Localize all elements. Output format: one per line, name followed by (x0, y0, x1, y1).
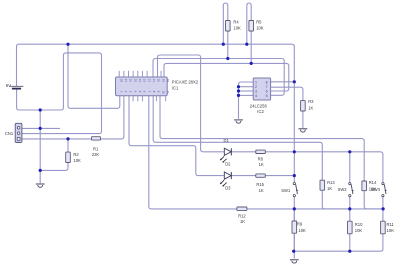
svg-text:1K: 1K (259, 188, 264, 193)
svg-text:R12: R12 (238, 213, 246, 218)
svg-text:R5: R5 (256, 20, 262, 25)
svg-text:R8: R8 (258, 156, 264, 161)
svg-text:20: 20 (157, 79, 161, 83)
svg-text:R2: R2 (73, 152, 79, 157)
svg-text:23: 23 (143, 79, 147, 83)
svg-text:SW3: SW3 (371, 187, 381, 192)
svg-text:21: 21 (152, 79, 156, 83)
svg-text:10K: 10K (298, 228, 306, 233)
svg-text:28: 28 (119, 79, 123, 83)
svg-text:R4: R4 (233, 20, 239, 25)
svg-text:R14: R14 (369, 180, 377, 185)
svg-text:R10: R10 (355, 222, 363, 227)
svg-text:10K: 10K (256, 26, 264, 31)
svg-text:24LC256: 24LC256 (250, 103, 268, 108)
svg-text:1: 1 (255, 80, 257, 84)
svg-text:R11: R11 (387, 222, 395, 227)
svg-text:6: 6 (266, 89, 268, 93)
svg-text:R3: R3 (308, 99, 314, 104)
svg-text:26: 26 (129, 79, 133, 83)
svg-text:10K: 10K (233, 26, 241, 31)
svg-text:1K: 1K (240, 219, 245, 224)
svg-text:1K: 1K (259, 162, 264, 167)
svg-text:2: 2 (255, 85, 257, 89)
svg-text:19: 19 (161, 79, 165, 83)
svg-text:25: 25 (133, 79, 137, 83)
svg-text:CN1: CN1 (5, 131, 14, 136)
svg-text:R1: R1 (93, 146, 99, 151)
svg-text:IC1: IC1 (172, 85, 179, 90)
svg-text:PICAXE 28X2: PICAXE 28X2 (172, 80, 199, 85)
svg-text:10K: 10K (355, 228, 363, 233)
svg-text:11: 11 (166, 91, 170, 94)
svg-text:SW1: SW1 (281, 188, 291, 193)
svg-text:1K: 1K (327, 186, 332, 191)
svg-text:10K: 10K (73, 158, 81, 163)
svg-text:10K: 10K (387, 228, 395, 233)
svg-text:8: 8 (266, 80, 268, 84)
svg-text:D3: D3 (225, 186, 231, 191)
svg-text:D2: D2 (225, 161, 231, 166)
svg-text:24: 24 (138, 79, 142, 83)
svg-text:22K: 22K (92, 152, 100, 157)
svg-text:22: 22 (147, 79, 151, 83)
svg-text:4: 4 (255, 94, 257, 98)
svg-text:3: 3 (255, 89, 257, 93)
svg-text:R13: R13 (327, 180, 335, 185)
svg-text:D1: D1 (224, 138, 230, 143)
svg-text:18: 18 (166, 79, 170, 83)
svg-text:5: 5 (266, 94, 268, 98)
svg-text:SW2: SW2 (338, 187, 348, 192)
svg-text:R9: R9 (297, 222, 303, 227)
svg-text:10: 10 (161, 91, 165, 95)
svg-text:IC2: IC2 (257, 109, 264, 114)
svg-text:6V: 6V (6, 83, 11, 88)
svg-text:27: 27 (124, 79, 128, 83)
svg-text:R15: R15 (256, 182, 264, 187)
svg-text:7: 7 (266, 85, 268, 89)
svg-text:1K: 1K (308, 105, 313, 110)
